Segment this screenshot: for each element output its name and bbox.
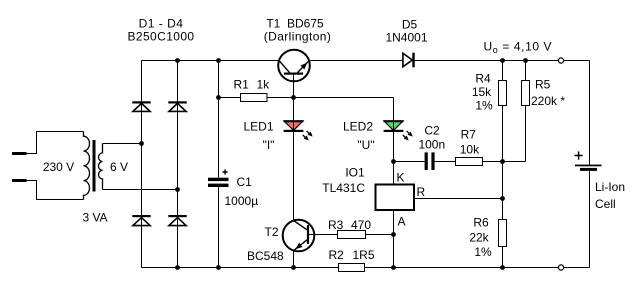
- svg-text:"U": "U": [357, 138, 374, 152]
- terminal U0 output top: [558, 58, 563, 63]
- transformer mains terminal 1: [12, 152, 27, 155]
- svg-text:470: 470: [351, 218, 371, 232]
- node top rail / bridge col2: [175, 58, 180, 63]
- wire battery column: [589, 61, 591, 268]
- svg-text:R4: R4: [475, 72, 491, 86]
- svg-text:D1 - D4: D1 - D4: [139, 17, 184, 31]
- resistor R2: [339, 264, 365, 272]
- svg-text:LED1: LED1: [244, 119, 274, 133]
- svg-text:3 VA: 3 VA: [82, 211, 107, 225]
- node T1 base: [291, 95, 296, 100]
- wire secondary top: [103, 143, 142, 145]
- svg-text:IO1: IO1: [345, 166, 365, 180]
- node R1 left: [216, 95, 221, 100]
- resistor R5: [522, 81, 530, 106]
- resistor R1: [241, 94, 268, 102]
- capacitor C2: [425, 152, 435, 170]
- svg-text:22k: 22k: [469, 230, 489, 244]
- node A / R3: [391, 232, 396, 237]
- node bottom rail / R6: [500, 265, 505, 270]
- svg-text:R1: R1: [234, 78, 250, 92]
- svg-text:6 V: 6 V: [110, 160, 128, 174]
- svg-text:R2: R2: [329, 248, 345, 262]
- svg-text:1N4001: 1N4001: [385, 31, 427, 45]
- wire K node to C2 and R7: [394, 161, 503, 163]
- resistor R3: [338, 231, 366, 239]
- node bottom rail / A col: [391, 265, 396, 270]
- node top rail / R5: [523, 58, 528, 63]
- wire bridge column 2: [177, 61, 179, 268]
- diode D1: [132, 101, 150, 111]
- svg-text:LED2: LED2: [343, 119, 373, 133]
- node bottom rail / col2: [175, 265, 180, 270]
- svg-text:1R5: 1R5: [353, 248, 375, 262]
- IC IO1 TL431C: [376, 185, 415, 211]
- diode D2: [168, 101, 186, 111]
- svg-text:D5: D5: [402, 18, 418, 32]
- svg-text:R5: R5: [535, 77, 551, 91]
- svg-text:"I": "I": [263, 138, 275, 152]
- diode D4: [168, 215, 186, 226]
- node bottom rail / T2 emitter: [291, 265, 296, 270]
- LED LED1: [284, 119, 313, 141]
- terminal output bottom: [558, 265, 563, 270]
- wire R5 column: [503, 61, 526, 162]
- svg-text:C1: C1: [237, 175, 253, 189]
- svg-text:BC548: BC548: [247, 249, 284, 263]
- wire bottom rail: [142, 267, 590, 269]
- svg-text:R6: R6: [473, 216, 489, 230]
- wire LED1 / T1 base column: [293, 98, 295, 221]
- wire R4-R6 column: [502, 61, 504, 268]
- node top rail / C1 col: [216, 58, 221, 63]
- wire C1 column: [218, 61, 220, 268]
- wire T2 emitter lead: [293, 250, 295, 267]
- wire K-A column: [393, 162, 395, 268]
- transistor T2: [283, 220, 394, 252]
- svg-text:100n: 100n: [418, 138, 445, 152]
- svg-text:B250C1000: B250C1000: [128, 30, 195, 44]
- transformer primary coil: [84, 132, 90, 200]
- svg-text:A: A: [398, 214, 406, 228]
- svg-text:R7: R7: [461, 127, 477, 141]
- svg-text:R3: R3: [328, 218, 344, 232]
- node R pin / R4 col: [500, 196, 505, 201]
- node K: [391, 159, 396, 164]
- svg-text:C2: C2: [424, 124, 440, 138]
- wire R pin: [414, 198, 503, 200]
- capacitor C1: [208, 169, 229, 187]
- svg-text:220k *: 220k *: [531, 94, 565, 108]
- wire top rail: [142, 60, 590, 62]
- svg-text:T1 BD675: T1 BD675: [266, 17, 324, 31]
- svg-text:15k: 15k: [472, 85, 492, 99]
- wire LED2 column: [393, 98, 395, 162]
- node bottom rail / C1: [216, 265, 221, 270]
- LED LED2: [384, 119, 413, 141]
- svg-text:230 V: 230 V: [43, 160, 74, 174]
- svg-text:1%: 1%: [475, 99, 493, 113]
- svg-text:10k: 10k: [460, 143, 480, 157]
- svg-text:1000µ: 1000µ: [225, 194, 259, 208]
- node secondary bottom: [175, 187, 180, 192]
- svg-text:1%: 1%: [474, 245, 492, 259]
- node K wire / R4 col: [500, 159, 505, 164]
- diode D3: [132, 215, 150, 226]
- svg-text:T2: T2: [265, 225, 279, 239]
- svg-text:R: R: [417, 185, 426, 199]
- svg-text:Cell: Cell: [595, 197, 616, 211]
- svg-text:K: K: [397, 170, 405, 184]
- transformer mains terminal 2: [12, 179, 27, 182]
- svg-text:1k: 1k: [257, 78, 271, 92]
- wire bridge column 1: [141, 61, 143, 268]
- transistor T1: [278, 50, 310, 98]
- transformer secondary coil: [98, 144, 102, 190]
- svg-text:Li-Ion: Li-Ion: [595, 180, 625, 194]
- wire secondary bottom: [103, 189, 178, 191]
- svg-text:(Darlington): (Darlington): [264, 30, 332, 44]
- wire R1 to base node: [219, 97, 394, 99]
- diode D5: [403, 53, 415, 68]
- svg-text:TL431C: TL431C: [322, 181, 365, 195]
- resistor R6: [499, 220, 507, 247]
- battery BT Li-Ion cell: [575, 151, 602, 171]
- transformer TR primary outline: [26, 132, 84, 200]
- transformer core: [93, 140, 96, 192]
- resistor R7: [456, 158, 483, 166]
- node secondary top: [139, 141, 144, 146]
- node top rail / R4: [500, 58, 505, 63]
- resistor R4: [499, 81, 507, 106]
